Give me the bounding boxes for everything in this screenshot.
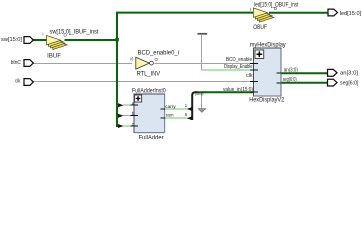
svg-text:btnC: btnC xyxy=(11,60,21,66)
svg-text:I: I xyxy=(250,7,251,12)
svg-text:FullAdder: FullAdder xyxy=(139,135,164,139)
svg-text:sw[15:0]_IBUF_inst: sw[15:0]_IBUF_inst xyxy=(50,30,99,36)
svg-text:carry: carry xyxy=(165,104,176,109)
svg-text:seg[6:0]: seg[6:0] xyxy=(340,80,359,86)
svg-text:HexDisplayV2: HexDisplayV2 xyxy=(249,98,285,104)
svg-text:6: 6 xyxy=(185,112,188,117)
svg-text:1: 1 xyxy=(185,103,188,108)
svg-text:I: I xyxy=(42,32,43,37)
svg-text:Display_Enable: Display_Enable xyxy=(224,64,253,70)
svg-text:BCD_enable0_i: BCD_enable0_i xyxy=(138,51,180,57)
svg-text:led[15:0]: led[15:0] xyxy=(340,11,362,17)
svg-text:sw[15:0]: sw[15:0] xyxy=(1,37,23,43)
svg-text:myHexDisplay: myHexDisplay xyxy=(250,43,286,49)
svg-text:an(3:0): an(3:0) xyxy=(284,68,298,74)
svg-text:sum: sum xyxy=(166,113,174,118)
svg-text:O: O xyxy=(155,57,159,62)
svg-text:seg(6:0): seg(6:0) xyxy=(283,77,297,83)
svg-text:RTL_INV: RTL_INV xyxy=(137,72,161,78)
svg-text:c: c xyxy=(132,121,134,126)
svg-text:OBUF: OBUF xyxy=(253,25,267,31)
svg-text:BCD_enable: BCD_enable xyxy=(226,57,252,63)
svg-text:IBUF: IBUF xyxy=(47,54,61,60)
svg-text:clk: clk xyxy=(246,73,253,79)
svg-text:value_in(15:0): value_in(15:0) xyxy=(223,87,253,93)
svg-text:an[3:0]: an[3:0] xyxy=(340,71,358,77)
svg-text:(15:0): (15:0) xyxy=(195,91,204,96)
svg-text:I0: I0 xyxy=(130,57,133,62)
svg-text:clk: clk xyxy=(15,79,21,85)
svg-text:FullAdderInst0: FullAdderInst0 xyxy=(132,88,166,94)
